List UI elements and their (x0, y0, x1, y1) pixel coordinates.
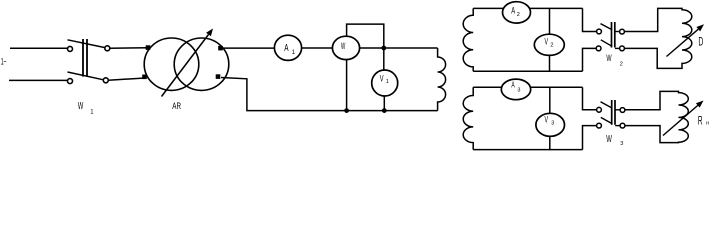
wattmeter W (332, 36, 359, 59)
switch W2 linkage bar 2 (614, 22, 616, 48)
switch W3 terminal top-left (597, 107, 602, 112)
ammeter A3 (501, 79, 530, 100)
wire right riser top (secondary 1) (583, 8, 597, 31)
AR secondary circle (174, 38, 229, 90)
switch W2 terminal top-left (597, 29, 602, 34)
wire top rail (secondary 2) (473, 86, 582, 88)
wire right riser bottom (secondary 1) (583, 48, 597, 71)
svg-text:V: V (380, 73, 384, 83)
switch W1 terminal bottom-left (68, 79, 73, 84)
svg-text:V: V (545, 37, 549, 47)
wire supply bottom (9, 79, 67, 81)
svg-text:н: н (706, 120, 709, 126)
variable resistor Rn (rheostat load) (660, 91, 688, 142)
switch W2 linkage bar 1 (611, 22, 613, 48)
variable inductor D (657, 8, 692, 68)
wire right riser bottom (secondary 2) (583, 126, 597, 150)
Rn arrow (663, 101, 704, 136)
svg-text:A: A (511, 5, 515, 15)
switch W2 terminal top-right (620, 29, 625, 34)
switch W1 terminal top-left (68, 46, 73, 51)
switch W1 terminal top-right (105, 46, 110, 51)
wire AR bottom-right to return (221, 78, 438, 111)
wire W1 to AR top (110, 47, 148, 49)
autotransformer AR (144, 38, 229, 90)
svg-text:AR: AR (172, 101, 181, 111)
wire AR to A1 (222, 47, 276, 49)
switch W2 wire stubs (615, 31, 620, 33)
switch W1 (68, 39, 110, 84)
D arrow (667, 24, 705, 56)
wattmeter W bottom wire (346, 58, 348, 111)
switch W3 (597, 100, 625, 128)
AR terminal top-right (218, 46, 223, 51)
AR arrow (162, 29, 214, 97)
switch W2 terminal bottom-left (596, 46, 601, 51)
switch W2 (596, 22, 624, 51)
switch W3 terminal bottom-left (597, 123, 602, 128)
junction node W bottom (344, 108, 349, 113)
voltmeter V1 bottom wire (383, 95, 385, 111)
wire bottom rail (secondary 1) (473, 70, 582, 72)
wire W3 to Rn bottom (625, 125, 661, 127)
switch W1 blade top (68, 40, 106, 48)
wire bottom rail (secondary 2) (473, 149, 582, 151)
svg-text:V: V (545, 115, 549, 125)
svg-text:3: 3 (517, 88, 520, 94)
ammeter A2 (503, 2, 531, 23)
AR primary circle (144, 38, 199, 90)
wire W to load (358, 47, 438, 49)
svg-text:A: A (511, 80, 514, 90)
switch W3 linkage bar 2 (614, 100, 616, 125)
winding coil (secondary 2) (463, 87, 473, 149)
junction node V1 bottom (382, 108, 387, 113)
AR terminal bottom-left (142, 75, 147, 80)
voltmeter V1 (372, 70, 398, 96)
switch W3 terminal top-right (620, 108, 625, 113)
voltmeter V3 (536, 113, 565, 136)
svg-text:3: 3 (620, 141, 623, 147)
wattmeter W voltage loop wire (347, 24, 384, 48)
junction node at V1 tap (381, 46, 386, 51)
svg-text:A: A (284, 43, 289, 54)
voltmeter V2 tap wire (549, 8, 551, 36)
AR terminal bottom-right (216, 74, 221, 79)
svg-text:1: 1 (386, 79, 389, 85)
wire W3 to Rn top (625, 109, 661, 111)
svg-text:2: 2 (550, 43, 553, 49)
wire A1 to W (300, 47, 334, 49)
ammeter A1 (274, 35, 301, 60)
switch W2 blade bottom (601, 40, 612, 47)
wire supply top (10, 47, 67, 49)
wire right riser top (secondary 2) (583, 87, 597, 110)
switch W1 linkage bar 1 (82, 39, 84, 77)
switch W1 terminal bottom-right (103, 78, 108, 83)
switch W3 blade bottom (601, 117, 612, 123)
switch W3 linkage bar 1 (611, 100, 613, 125)
svg-text:2: 2 (517, 12, 520, 18)
switch W2 terminal bottom-right (620, 46, 625, 51)
winding coil (secondary 1) (463, 8, 473, 71)
svg-text:1~: 1~ (1, 57, 7, 67)
svg-text:W: W (78, 100, 83, 112)
switch W1 linkage bar 2 (86, 39, 88, 77)
svg-text:R: R (698, 114, 703, 128)
wire W2 to D top (624, 31, 658, 33)
inductor L load (primary circuit) (438, 48, 446, 111)
svg-text:W: W (341, 41, 346, 51)
svg-text:W: W (606, 53, 612, 63)
wire W1 to AR bottom (108, 78, 145, 80)
switch W2 blade top (601, 24, 613, 30)
svg-text:2: 2 (620, 62, 623, 68)
voltmeter V3 tap wire (549, 87, 551, 115)
switch W3 wire stubs (615, 109, 620, 111)
switch W3 blade top (601, 102, 613, 108)
svg-text:D: D (698, 36, 703, 48)
AR terminal top-left (146, 45, 151, 50)
svg-text:W: W (606, 134, 612, 145)
wire top rail (secondary 1) (473, 7, 582, 9)
switch W3 terminal bottom-right (620, 123, 625, 128)
svg-text:3: 3 (551, 121, 554, 127)
wire W2 to D bottom (624, 47, 658, 49)
voltmeter V1 top wire (383, 48, 385, 71)
switch W1 blade bottom (68, 72, 104, 80)
voltmeter V2 (534, 34, 564, 55)
